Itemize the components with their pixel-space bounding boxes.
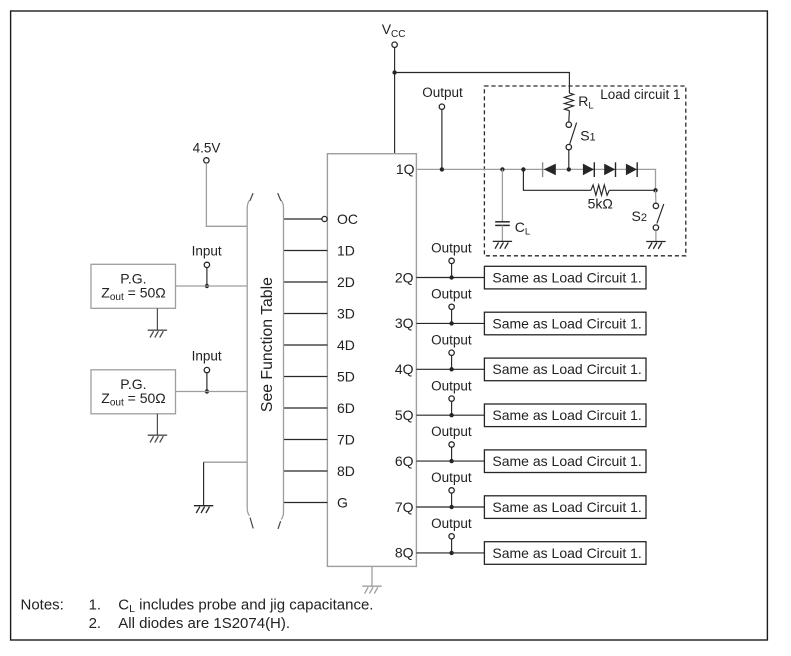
pin 7Q	[395, 499, 485, 515]
pulse generator P.G. 1	[91, 264, 176, 308]
wire VCC down to IC top pin	[394, 73, 396, 154]
diode D2 (points right)	[583, 162, 594, 177]
wire P.G. 2 to ground	[156, 414, 158, 435]
resistor 5k ohm	[588, 185, 613, 211]
ground (CL)	[493, 241, 512, 248]
IC block (octal latch, see function table)	[327, 154, 416, 567]
svg-text:5Q: 5Q	[395, 407, 414, 423]
wire IC GND pin	[371, 566, 373, 586]
svg-text:Same as Load Circuit 1.: Same as Load Circuit 1.	[492, 545, 641, 561]
wire P.G. 1 to brace	[176, 285, 248, 287]
svg-text:3Q: 3Q	[395, 315, 414, 331]
output terminal 4Q	[431, 332, 472, 371]
brace right bottom break	[278, 521, 281, 529]
pin OC (active low, bubble)	[284, 211, 359, 227]
svg-text:Same as Load Circuit 1.: Same as Load Circuit 1.	[492, 361, 641, 377]
pin 1D	[284, 242, 355, 258]
svg-text:All diodes are 1S2074(H).: All diodes are 1S2074(H).	[118, 615, 290, 632]
wire 5k ohm branch	[523, 169, 591, 190]
load box for 2Q: Same as Load Circuit 1.	[484, 266, 646, 289]
svg-text:Output: Output	[422, 85, 463, 100]
pin 2D	[284, 274, 355, 290]
svg-text:Output: Output	[431, 332, 472, 347]
svg-text:8D: 8D	[337, 463, 355, 479]
diode D4 (points right)	[626, 162, 637, 177]
svg-text:6D: 6D	[337, 400, 355, 416]
output terminal 8Q	[431, 516, 472, 555]
ground (G input)	[194, 506, 213, 513]
brace left bottom break	[250, 518, 253, 529]
svg-text:2.: 2.	[89, 615, 102, 632]
svg-text:7D: 7D	[337, 431, 355, 447]
svg-text:G: G	[337, 494, 348, 510]
output terminal 5Q	[431, 378, 472, 417]
load circuit 1 dashed boundary	[484, 86, 685, 256]
svg-text:Output: Output	[431, 378, 472, 393]
svg-text:Same as Load Circuit 1.: Same as Load Circuit 1.	[492, 499, 641, 515]
load box for 4Q: Same as Load Circuit 1.	[484, 358, 646, 381]
pin 5D	[284, 368, 355, 384]
svg-text:2D: 2D	[337, 274, 355, 290]
pin 7D	[284, 431, 355, 447]
pulse generator P.G. 2	[91, 370, 176, 414]
pin 4D	[284, 337, 355, 353]
power terminal VCC	[382, 21, 406, 47]
wire S2 to ground	[655, 230, 657, 241]
output terminal 1Q	[422, 85, 463, 110]
power terminal 4.5V	[193, 140, 221, 163]
svg-text:7Q: 7Q	[395, 499, 414, 515]
ground (IC)	[362, 586, 381, 593]
pin 8Q	[395, 545, 485, 561]
svg-text:Input: Input	[192, 349, 222, 364]
pin 6Q	[395, 453, 485, 469]
junction S1 tap	[567, 167, 571, 171]
wire S1 to output node	[568, 150, 570, 170]
svg-text:4Q: 4Q	[395, 361, 414, 377]
svg-text:1.: 1.	[89, 596, 102, 613]
wire RL to S1	[568, 111, 571, 122]
output terminal 3Q	[431, 287, 472, 326]
svg-text:CL includes probe and jig capa: CL includes probe and jig capacitance.	[118, 596, 373, 615]
svg-text:3D: 3D	[337, 305, 355, 321]
junction CL tap	[500, 167, 504, 171]
load box for 7Q: Same as Load Circuit 1.	[484, 496, 646, 519]
junction 5k ohm loop tap	[521, 167, 525, 171]
svg-text:8Q: 8Q	[395, 545, 414, 561]
wire output terminal down to 1Q net	[441, 109, 443, 169]
wire brace to ground	[204, 461, 248, 463]
svg-text:4.5V: 4.5V	[193, 140, 221, 155]
pin 4Q	[395, 361, 485, 377]
svg-text:Load circuit 1: Load circuit 1	[600, 87, 680, 102]
svg-text:5D: 5D	[337, 368, 355, 384]
svg-text:Same as Load Circuit 1.: Same as Load Circuit 1.	[492, 453, 641, 469]
pin 6D	[284, 400, 355, 416]
output terminal 7Q	[431, 470, 472, 509]
switch S2	[632, 203, 664, 230]
diode D3 (points right)	[604, 162, 615, 177]
wire 1Q output net (horizontal)	[416, 169, 655, 190]
svg-text:Input: Input	[192, 243, 222, 258]
brace right top break	[278, 193, 281, 201]
pin 5Q	[395, 407, 485, 423]
svg-text:Output: Output	[431, 424, 472, 439]
wire CL to ground	[501, 225, 503, 241]
input terminal 2	[192, 349, 222, 394]
svg-text:Notes:: Notes:	[21, 596, 64, 613]
svg-text:Output: Output	[431, 470, 472, 485]
wire P.G. 2 to brace	[176, 391, 248, 393]
wire VCC terminal to junction	[394, 47, 396, 72]
wire 1Q net to CL	[501, 169, 503, 221]
notes text	[21, 596, 374, 631]
ground (S2)	[646, 242, 665, 249]
pin G	[284, 494, 348, 510]
pin 2Q	[395, 269, 485, 285]
svg-text:See Function Table: See Function Table	[259, 277, 276, 412]
junction S2 node	[653, 188, 657, 192]
svg-text:1D: 1D	[337, 242, 355, 258]
load box for 3Q: Same as Load Circuit 1.	[484, 312, 646, 335]
wire 5k ohm to S2 node	[609, 189, 655, 191]
load box for 5Q: Same as Load Circuit 1.	[484, 404, 646, 427]
diode D1 (points left)	[543, 162, 556, 177]
switch S1	[566, 122, 596, 150]
see-function-table bus brace left rail	[247, 200, 249, 516]
svg-text:Same as Load Circuit 1.: Same as Load Circuit 1.	[492, 407, 641, 423]
wire 4.5V to brace	[206, 163, 247, 226]
pin 8D	[284, 463, 355, 479]
see-function-table bus brace right rail	[281, 200, 283, 519]
junction output terminal	[440, 167, 444, 171]
pin 3D	[284, 305, 355, 321]
junction on VCC net	[392, 70, 396, 74]
wire down to S2	[655, 190, 657, 203]
svg-text:Output: Output	[431, 287, 472, 302]
svg-text:1Q: 1Q	[396, 161, 415, 177]
output terminal 6Q	[431, 424, 472, 463]
svg-text:Same as Load Circuit 1.: Same as Load Circuit 1.	[492, 315, 641, 331]
svg-text:OC: OC	[337, 211, 358, 227]
svg-text:6Q: 6Q	[395, 453, 414, 469]
svg-text:Same as Load Circuit 1.: Same as Load Circuit 1.	[492, 269, 641, 285]
svg-text:4D: 4D	[337, 337, 355, 353]
svg-text:2Q: 2Q	[395, 269, 414, 285]
svg-text:5kΩ: 5kΩ	[588, 195, 613, 211]
ground (P.G. 1)	[148, 330, 167, 337]
output terminal 2Q	[431, 241, 472, 280]
load box for 6Q: Same as Load Circuit 1.	[484, 450, 646, 473]
resistor RL	[564, 93, 593, 112]
capacitor CL	[495, 219, 530, 237]
input terminal 1	[192, 243, 222, 288]
brace left top break	[250, 193, 253, 201]
wire VCC horizontal to RL	[395, 73, 570, 94]
svg-text:Output: Output	[431, 516, 472, 531]
pin 3Q	[395, 315, 485, 331]
ground (P.G. 2)	[148, 435, 167, 442]
svg-text:Output: Output	[431, 241, 472, 256]
wire P.G. 1 to ground	[156, 308, 158, 330]
load box for 8Q: Same as Load Circuit 1.	[484, 542, 646, 565]
